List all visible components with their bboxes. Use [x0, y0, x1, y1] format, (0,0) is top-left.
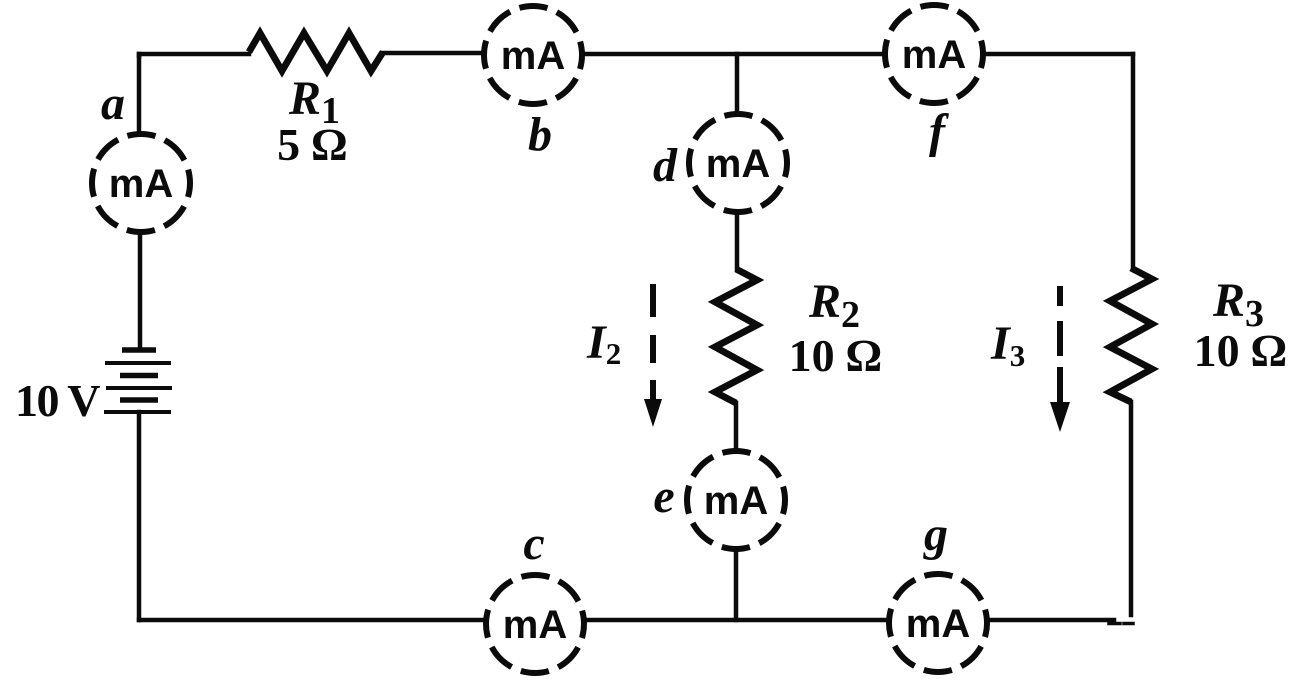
svg-text:mA: mA [704, 479, 768, 523]
current arrow I2 (dashed) [644, 284, 662, 427]
svg-text:c: c [523, 517, 544, 570]
svg-text:I2: I2 [586, 316, 621, 371]
ammeter d (dashed circle) [689, 114, 787, 212]
svg-text:I3: I3 [990, 317, 1025, 373]
wire middle branch between ammeter d and R2 [735, 214, 740, 269]
svg-text:b: b [528, 108, 552, 161]
wire top between ammeter f and top-right corner [985, 52, 1133, 57]
wire right vertical above R3 [1131, 54, 1136, 268]
svg-text:5 Ω: 5 Ω [277, 119, 347, 170]
ammeter c (dashed circle) [486, 575, 584, 673]
wire top between ammeter b and ammeter f [584, 52, 883, 57]
wire bottom between ammeter g and bottom-right corner [989, 618, 1114, 623]
svg-text:10 Ω: 10 Ω [789, 330, 882, 381]
svg-text:a: a [101, 77, 125, 130]
resistor R3 [1110, 268, 1152, 402]
wire middle branch between R2 and ammeter e [734, 403, 739, 449]
ammeter e (dashed circle) [687, 451, 785, 549]
svg-text:10 V: 10 V [15, 375, 100, 426]
wire right vertical below R3 [1129, 402, 1134, 615]
wire left vertical below battery [137, 412, 142, 620]
current arrow I3 (dashed) [1050, 286, 1070, 432]
svg-text:e: e [653, 470, 674, 523]
wire left vertical between ammeter a and battery [138, 233, 143, 347]
svg-text:mA: mA [503, 603, 567, 647]
svg-text:10 Ω: 10 Ω [1194, 325, 1287, 376]
wire bottom-right corner artifact dashes [1109, 622, 1120, 626]
svg-text:mA: mA [109, 162, 173, 206]
svg-text:g: g [923, 508, 948, 561]
resistor R2 [715, 269, 757, 403]
ammeter f (dashed circle) [885, 5, 983, 103]
wire top between R1 and ammeter b [383, 51, 482, 56]
wire top-left segment [139, 54, 249, 56]
wire left vertical above ammeter a [137, 54, 142, 133]
svg-text:mA: mA [706, 142, 770, 186]
svg-text:R2: R2 [808, 275, 860, 336]
wire bottom-left segment [139, 618, 484, 623]
ammeter g (dashed circle) [889, 574, 987, 672]
resistor R1 [249, 33, 383, 71]
wire bottom between ammeter c and ammeter g [586, 618, 887, 623]
svg-text:d: d [653, 139, 678, 192]
svg-text:mA: mA [902, 33, 966, 77]
ammeter b (dashed circle) [484, 6, 582, 104]
wire middle branch from top node to ammeter d [735, 54, 740, 112]
wire middle branch between ammeter e and bottom node [734, 551, 739, 620]
svg-text:mA: mA [906, 602, 970, 646]
battery B1 10 V [104, 350, 172, 412]
ammeter a (dashed circle) [92, 134, 190, 232]
svg-text:mA: mA [501, 34, 565, 78]
svg-text:f: f [929, 105, 949, 158]
